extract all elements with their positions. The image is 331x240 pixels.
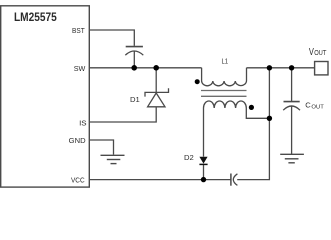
svg-text:OUT: OUT <box>314 50 327 57</box>
svg-text:LM25575: LM25575 <box>14 10 57 24</box>
svg-text:L1: L1 <box>222 56 229 65</box>
svg-text:OUT: OUT <box>311 105 324 111</box>
svg-text:SW: SW <box>74 64 86 73</box>
svg-text:D2: D2 <box>184 153 194 162</box>
svg-text:IS: IS <box>79 119 87 128</box>
svg-text:BST: BST <box>72 26 85 35</box>
svg-text:VCC: VCC <box>71 176 85 185</box>
svg-text:GND: GND <box>69 136 86 145</box>
svg-text:D1: D1 <box>130 95 140 104</box>
